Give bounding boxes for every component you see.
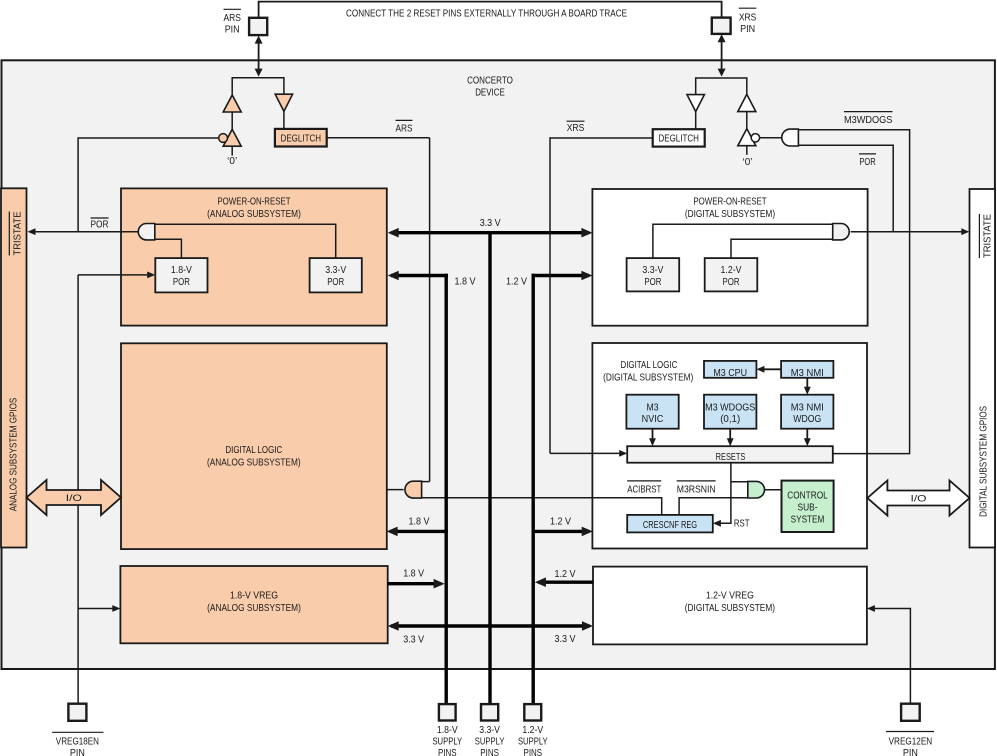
label XRS (overline) [567,120,585,122]
svg-text:ARS: ARS [396,124,413,135]
svg-text:1.8-V: 1.8-V [171,265,192,276]
3.3-V supply pin [481,704,498,720]
svg-text:1.2 V: 1.2 V [555,569,576,580]
svg-text:PIN: PIN [903,748,918,756]
svg-text:SYSTEM: SYSTEM [791,515,825,526]
svg-text:3.3 V: 3.3 V [555,634,576,645]
svg-text:POR: POR [173,277,190,288]
svg-text:3.3-V: 3.3-V [325,265,346,276]
M3 NVIC box [626,395,678,429]
net VREG18EN: rail down left side [77,275,79,704]
svg-text:1.2-V: 1.2-V [522,725,543,736]
svg-text:1.8-V: 1.8-V [437,725,458,736]
buffer (XRS output driver, digital side) [738,94,756,111]
DEGLITCH block (digital side) [653,129,705,146]
wire: M3 NMI to M3 NMI WDOG [806,378,808,392]
M3 NMI WDOG box [781,395,833,429]
wire: M3 NVIC to RESETS [652,429,654,443]
net POR: POR output to gate input [798,145,893,231]
svg-text:M3: M3 [647,402,659,413]
svg-text:PINS: PINS [524,748,543,756]
svg-text:SUPPLY: SUPPLY [432,737,462,748]
wire: gate output to control subsystem [765,489,782,491]
buffer (ARS input, down arrow, analog side) [275,94,292,111]
wire [746,112,748,129]
svg-text:PINS: PINS [480,748,499,756]
digital subsystem GPIOs box [970,189,996,548]
wire: XRS branch tee [696,78,747,95]
svg-text:PIN: PIN [740,24,755,35]
wire: M3 WDOGS to RESETS [729,429,731,443]
1.8-V POR box [155,258,207,292]
wire: 3.3-V POR to gate [155,224,336,258]
svg-text:‘0’: ‘0’ [227,156,237,167]
svg-text:I/O: I/O [66,493,82,503]
svg-text:(ANALOG SUBSYSTEM): (ANALOG SUBSYSTEM) [207,209,301,220]
M3 NMI box [781,361,833,378]
1.8V VREG output to rail [388,582,442,585]
wire: ARS pin to internal branch (bidirectional) [258,38,260,74]
svg-text:1.2-V VREG: 1.2-V VREG [706,590,754,601]
DEGLITCH block (analog side) [275,129,327,147]
svg-text:PIN: PIN [225,25,240,36]
OR gate (digital POR combine) [833,224,850,240]
svg-text:WDOG: WDOG [793,414,821,425]
svg-text:(DIGITAL SUBSYSTEM): (DIGITAL SUBSYSTEM) [603,373,693,384]
svg-text:VREG18EN: VREG18EN [56,737,99,748]
CRESCNF REG box [627,515,713,533]
net RST: RESETS to CRESCNF REG [716,463,731,524]
XRS pin [712,18,731,34]
net ARS: deglitch output to analog logic gate [327,137,430,139]
svg-text:PIN: PIN [70,748,85,756]
svg-text:DEVICE: DEVICE [475,87,505,98]
M3 WDOGS (0,1) box [704,395,756,429]
svg-text:(DIGITAL SUBSYSTEM): (DIGITAL SUBSYSTEM) [685,603,775,614]
svg-text:CONTROL: CONTROL [787,491,828,502]
3.3V supply rail (vertical bus) [488,231,491,704]
wire [231,112,233,130]
svg-text:POR: POR [723,277,740,288]
POWER-ON-RESET (ANALOG SUBSYSTEM) block [121,188,387,325]
svg-text:NVIC: NVIC [642,414,664,425]
svg-text:POR: POR [327,277,344,288]
M3 CPU box [704,361,756,378]
3.3-V POR box [310,258,362,292]
1.8V feed to analog POR [391,274,448,277]
svg-text:CONCERTO: CONCERTO [467,76,513,87]
svg-text:CONNECT THE 2 RESET PINS EXTE: CONNECT THE 2 RESET PINS EXTERNALLY THRO… [346,8,627,19]
buffer (ARS output driver, analog side) [223,95,241,112]
ARS pin [249,18,267,35]
labels ACIBRST / M3RSNIN (overlines) [627,480,661,482]
svg-text:VREG12EN: VREG12EN [889,737,933,748]
POWER-ON-RESET (DIGITAL SUBSYSTEM) block [592,189,867,326]
CONTROL SUB-SYSTEM box [782,481,834,532]
net POR: gate output to tristate GPIOs [851,231,966,233]
wire: ARS branch tee [232,78,284,96]
svg-text:1.2 V: 1.2 V [506,276,527,287]
wire: rail to 1.8-V VREG enable [78,608,117,610]
inverter with '0' input (XRS open-drain, digital side) [738,129,756,146]
svg-text:1.8 V: 1.8 V [409,516,430,527]
3.3V feed to both VREGs [391,624,590,627]
wire: rail to 1.8-V POR [78,274,152,276]
analog subsystem GPIOs box [1,188,27,547]
svg-text:M3 CPU: M3 CPU [713,368,747,379]
svg-text:TRISTATE: TRISTATE [12,211,23,255]
svg-text:1.8 V: 1.8 V [455,276,476,287]
svg-text:‘0’: ‘0’ [743,157,753,168]
1.8-V supply pin [439,704,456,720]
svg-text:TRISTATE: TRISTATE [982,214,993,258]
svg-text:ARS: ARS [224,13,242,24]
wire [283,111,285,128]
svg-text:(ANALOG SUBSYSTEM): (ANALOG SUBSYSTEM) [207,458,301,469]
svg-text:3.3-V: 3.3-V [642,265,663,276]
wire: vertical to POR line [77,137,79,231]
1.2V feed to digital logic [532,530,590,533]
1.2-V supply pin [524,704,541,720]
svg-text:POWER-ON-RESET: POWER-ON-RESET [693,197,766,208]
AND gate (control subsystem reset: RST & M3RSNIN) [731,481,748,483]
svg-text:3.3 V: 3.3 V [480,218,501,229]
RESETS bar [627,446,833,463]
1.2-V POR box (digital) [705,258,758,291]
svg-text:M3 NMI: M3 NMI [791,402,824,413]
svg-text:1.8 V: 1.8 V [403,569,424,580]
1.8V feed to analog logic [390,530,448,533]
svg-text:M3RSNIN: M3RSNIN [677,484,716,495]
wire: ARS into gate [422,481,430,483]
svg-text:ANALOG SUBSYSTEM GPIOS: ANALOG SUBSYSTEM GPIOS [9,398,20,512]
VREG18EN pin [68,704,86,721]
svg-text:POWER-ON-RESET: POWER-ON-RESET [217,197,290,208]
svg-text:DIGITAL LOGIC: DIGITAL LOGIC [225,445,282,456]
1.2V VREG output to rail [538,581,593,584]
svg-text:CRESCNF REG: CRESCNF REG [643,520,697,531]
label TRISTATE (right, rotated, overline) [978,214,980,258]
svg-text:POR: POR [644,277,661,288]
svg-text:3.3-V: 3.3-V [479,725,500,736]
svg-text:M3 NMI: M3 NMI [791,368,824,379]
inverter with '0' input (ARS open-drain, analog side) [223,129,241,146]
svg-text:1.2-V: 1.2-V [721,265,742,276]
3.3-V POR box (digital) [627,258,680,291]
svg-text:M3WDOGS: M3WDOGS [844,115,893,126]
label TRISTATE (left, rotated, overline) [8,212,10,256]
net ACIBRST: CRESCNF REG to gate [422,498,662,515]
1.8V supply rail (vertical bus) [445,274,448,704]
svg-text:DEGLITCH: DEGLITCH [658,134,699,145]
net M3WDOGS: RESETS to gate input [798,130,909,454]
buffer (XRS input, down arrow, digital side) [687,95,704,112]
label POR (left, overline) [91,217,109,219]
svg-text:POR: POR [91,219,109,230]
svg-text:I/O: I/O [911,493,927,503]
label ARS (overline) [396,119,413,121]
DIGITAL LOGIC (DIGITAL SUBSYSTEM) block [592,343,867,549]
board trace wire connecting ARS and XRS pins [259,2,722,18]
svg-text:DIGITAL LOGIC: DIGITAL LOGIC [621,360,678,371]
wire: 1.2-V POR to gate [731,239,833,258]
1.8-V VREG (ANALOG SUBSYSTEM) block [120,566,387,643]
wire: 1.8-V POR to gate [155,239,182,258]
AND gate (analog reset combine: ARS & ACIBRST) [405,481,422,498]
svg-text:DIGITAL SUBSYSTEM GPIOS: DIGITAL SUBSYSTEM GPIOS [979,406,990,517]
wire: XRS pin to internal branch (bidirectional) [721,36,723,74]
VREG12EN pin [901,704,920,721]
wire: 3.3-V POR to gate [653,224,833,258]
svg-text:RESETS: RESETS [716,452,746,463]
svg-text:M3 WDOGS: M3 WDOGS [705,402,755,413]
svg-text:DEGLITCH: DEGLITCH [281,134,322,145]
svg-text:1.8-V VREG: 1.8-V VREG [230,590,278,601]
svg-text:XRS: XRS [739,13,757,24]
I/O bus arrow (analog) [27,480,122,515]
I/O bus arrow (digital) [867,481,969,516]
svg-text:SUB-: SUB- [798,503,818,514]
1.2-V VREG (DIGITAL SUBSYSTEM) block [593,567,867,645]
DIGITAL LOGIC (ANALOG SUBSYSTEM) block [121,343,387,549]
net POR(analog): gate output to tristate GPIOs [31,231,139,233]
3.3V feed to both POR blocks [391,231,589,234]
svg-text:3.3 V: 3.3 V [403,634,424,645]
wire: M3 NMI WDOG to RESETS [806,429,808,443]
svg-text:(ANALOG SUBSYSTEM): (ANALOG SUBSYSTEM) [207,603,301,614]
wire [695,112,697,130]
svg-text:POR: POR [859,157,875,168]
svg-text:RST: RST [734,518,750,529]
svg-text:SUPPLY: SUPPLY [475,737,505,748]
svg-text:XRS: XRS [567,123,585,134]
1.2V feed to digital POR [532,274,590,277]
AND gate driving XRS (M3WDOGS & POR) [760,137,782,139]
svg-text:1.2 V: 1.2 V [550,516,571,527]
OR gate (analog POR combine) [138,224,155,240]
svg-text:(DIGITAL SUBSYSTEM): (DIGITAL SUBSYSTEM) [685,209,775,220]
net XRS: deglitch to RESETS [550,137,653,139]
net VREG12EN: pin to 1.2-V VREG enable [870,609,910,704]
svg-text:PINS: PINS [438,748,457,756]
svg-text:ACIBRST: ACIBRST [627,484,661,495]
svg-text:(0,1): (0,1) [720,414,740,425]
wire: M3 NMI to M3 CPU [760,368,782,370]
wire: inverter output to VREG18EN/POR rail [78,137,219,139]
wire: gate output into analog logic [387,489,404,491]
1.2V supply rail (vertical bus) [532,274,535,704]
svg-text:SUPPLY: SUPPLY [518,737,548,748]
